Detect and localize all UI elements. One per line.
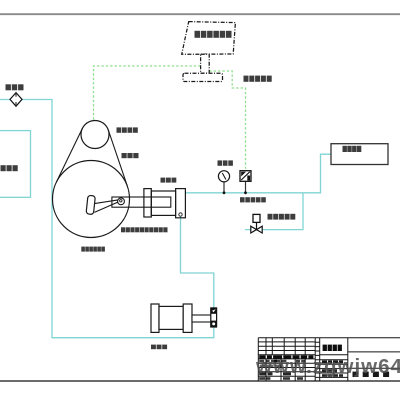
svg-text:www.zgwjw64: www.zgwjw64 xyxy=(255,355,400,378)
belt left side xyxy=(56,128,82,182)
stabilizer cylinder rod xyxy=(192,315,211,322)
crank pin xyxy=(118,198,125,205)
monitor base xyxy=(183,73,223,81)
title block text marks xyxy=(259,355,266,358)
label: constant speed rotating disc xyxy=(81,247,85,252)
pressure gauge stem xyxy=(223,182,225,193)
pressure transducer stem xyxy=(245,181,247,193)
piston rod xyxy=(112,197,171,207)
buffer cylinder body xyxy=(151,191,175,215)
pressure gauge xyxy=(218,171,229,182)
wire: main pressure line to tested part xyxy=(185,154,331,193)
stabilizer cylinder body xyxy=(159,306,183,329)
label: flow control valve xyxy=(268,214,273,220)
stabilizer cylinder right cap xyxy=(183,304,192,332)
control wire: monitor to servo amplifier / pressure transducer xyxy=(209,71,245,169)
buffer cylinder right flange xyxy=(176,189,186,218)
connecting link xyxy=(94,200,118,204)
water tank xyxy=(0,131,31,198)
belt right side xyxy=(108,130,127,187)
throttle valve body xyxy=(251,226,257,233)
wire: tank suction line (filter to stabilizer cylinder) xyxy=(0,100,214,338)
rod end fitting xyxy=(211,308,217,327)
wire: buffer cylinder drain line xyxy=(181,217,214,309)
label: monitor panel text xyxy=(195,31,201,38)
device under test box xyxy=(331,144,388,165)
title block xyxy=(258,338,400,381)
stabilizer cylinder left cap xyxy=(151,304,159,332)
flywheel (crank disc) xyxy=(53,161,130,238)
crank counterweight xyxy=(86,195,95,214)
label: buffer cylinder xyxy=(161,178,166,183)
label: belt pulley xyxy=(122,153,127,158)
label: servo motor xyxy=(117,127,122,132)
buffer cylinder drain port xyxy=(179,213,182,216)
label: water tank xyxy=(1,165,6,171)
wire: throttle valve branch xyxy=(245,193,303,230)
page bottom border xyxy=(0,380,400,382)
monitor screen (control panel) xyxy=(182,22,236,55)
label: stabilizer cylinder xyxy=(151,345,156,350)
page top border xyxy=(0,13,400,15)
label: pressure transducer xyxy=(240,197,245,202)
throttle valve actuator box xyxy=(253,214,260,222)
label: filter xyxy=(6,84,11,90)
filter (diamond symbol) xyxy=(10,93,22,107)
label: tested component xyxy=(343,146,347,152)
pressure transducer xyxy=(240,171,251,182)
buffer cylinder left flange xyxy=(144,189,151,217)
control wire: monitor to servo motor xyxy=(94,66,201,122)
monitor neck xyxy=(201,54,210,73)
label: feedback transducer note xyxy=(121,227,125,232)
servo motor pulley xyxy=(81,121,109,149)
label: servo amplifier xyxy=(244,76,249,82)
label: pressure gauge xyxy=(218,160,223,165)
